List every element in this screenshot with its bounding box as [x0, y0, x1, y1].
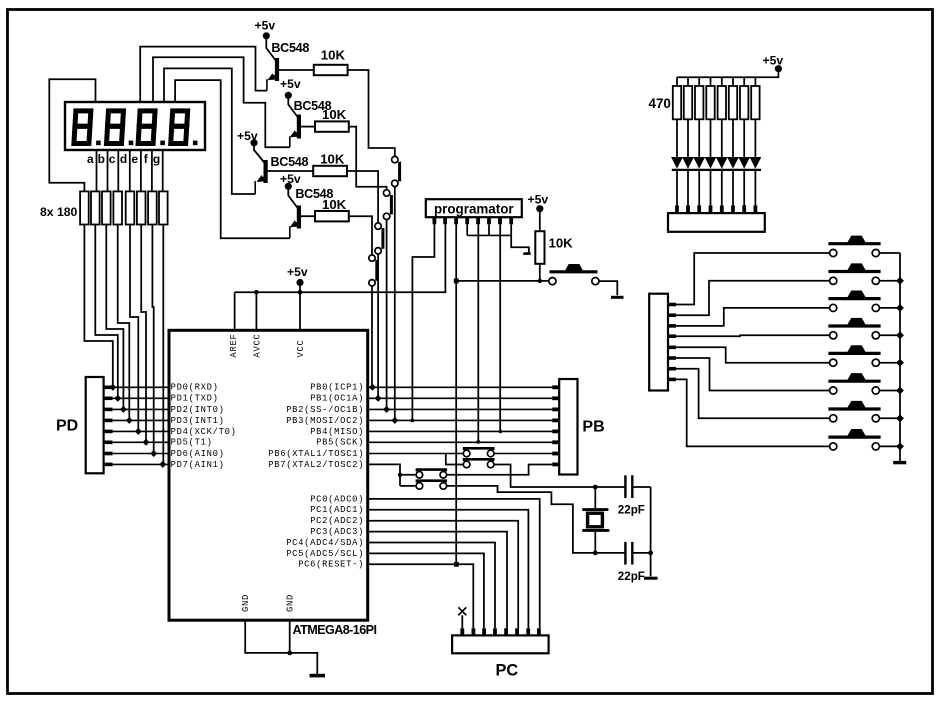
wire rail to resistor 470 #7 — [743, 77, 745, 86]
junction PD1 — [114, 395, 121, 402]
wire keys pin 8 to button 8 — [676, 379, 830, 446]
connector PD pin 6 stub — [104, 440, 113, 444]
connector PB pin 3 stub — [552, 407, 559, 411]
svg-text:PD: PD — [56, 418, 78, 435]
svg-text:d: d — [120, 152, 127, 166]
connector LED pin 4 stub — [709, 205, 713, 213]
wire S4 to PB0 — [371, 286, 373, 387]
svg-text:PB2(SS-/OC1B): PB2(SS-/OC1B) — [286, 405, 364, 415]
wire digit3 common to Q3 emitter — [164, 68, 255, 194]
svg-text:10K: 10K — [322, 107, 347, 122]
connector PC pin 7 stub — [526, 628, 530, 635]
connector LED pin 8 stub — [754, 205, 758, 213]
wire LED to connector #7 — [743, 170, 745, 206]
svg-text:8x 180: 8x 180 — [40, 205, 77, 219]
connector PB pin 1 stub — [552, 385, 559, 389]
wire X to PC pin1 — [461, 615, 463, 628]
junction PD6 — [150, 450, 157, 457]
wire cap C2 to bus — [632, 552, 650, 554]
junction bus button 8 — [896, 443, 904, 451]
wire AVCC pin — [255, 292, 257, 330]
transistor Q2 BC548 collector wire — [288, 95, 298, 118]
ground symbol programator — [523, 252, 530, 255]
resistor 470 ohm #1 — [673, 86, 681, 119]
resistor 180 ohm #3 — [102, 191, 111, 224]
wire PC2 line — [368, 521, 519, 629]
connector PC pin 1 stub — [460, 628, 464, 635]
button SW8 bar — [828, 436, 880, 439]
wire keys pin 1 to button 1 — [676, 253, 830, 305]
button SW3 bar — [828, 297, 880, 300]
wire PB6 to jumper JA — [368, 453, 464, 455]
+5v node Q1 — [263, 32, 270, 39]
wire programator pin5 (SCK) to PB5 — [477, 224, 479, 442]
+5v node VCC — [296, 279, 303, 286]
connector keys box — [649, 294, 668, 391]
wire button 1 to bus — [879, 252, 900, 254]
wire PC3 line — [368, 532, 507, 629]
transistor Q3 emitter wire — [258, 177, 265, 182]
wire segment f to resistor — [151, 150, 153, 191]
resistor 10K R2 body — [315, 121, 349, 131]
resistor 470 ohm #4 — [706, 86, 714, 119]
button SW4 right contact — [872, 332, 879, 339]
+5v node Q3 — [250, 139, 257, 146]
connector PC pin 6 stub — [515, 628, 519, 635]
connector keys pin 3 stub — [668, 324, 676, 328]
wire VCC pin — [299, 292, 301, 330]
wire rail to resistor 470 #2 — [687, 77, 689, 86]
button SW6 bar — [828, 380, 880, 383]
svg-text:PD2(INT0): PD2(INT0) — [171, 405, 225, 415]
jumper JB left contact — [463, 461, 470, 468]
wire programator pin1 (MOSI) to PB3 — [412, 224, 434, 420]
svg-text:+5v: +5v — [763, 54, 784, 68]
programator pin 5 stub — [476, 217, 480, 224]
button SW2 bar — [828, 270, 880, 273]
connector PC pin 2 stub — [471, 628, 475, 635]
svg-text:AREF: AREF — [229, 334, 239, 358]
wire R2 10K to switch S2 — [349, 127, 387, 190]
connector LED pin 7 stub — [742, 205, 746, 213]
wire digit4 common to Q4 emitter — [175, 80, 290, 238]
svg-text:PD0(RXD): PD0(RXD) — [171, 383, 219, 393]
wire button 2 to bus — [879, 280, 900, 282]
ground symbol caps — [644, 577, 658, 580]
wire LED to connector #2 — [687, 170, 689, 206]
LED D5 — [716, 157, 728, 169]
crystal X1 body — [588, 513, 603, 527]
svg-text:10K: 10K — [321, 48, 346, 63]
junction PD3 — [126, 417, 133, 424]
connector keys pin 4 stub — [668, 334, 676, 338]
switch S4 bottom contact — [369, 280, 375, 286]
svg-text:22pF: 22pF — [618, 504, 645, 517]
svg-text:PB: PB — [582, 419, 604, 436]
+5v node Q4 — [285, 183, 292, 190]
wire resistor to LED #3 — [698, 119, 700, 157]
wire rail to resistor 470 #3 — [698, 77, 700, 86]
connector LED pin 6 stub — [731, 205, 735, 213]
programator pin 4 stub — [465, 217, 469, 224]
programator pin 7 stub — [498, 217, 502, 224]
wire button 8 to bus — [879, 445, 900, 447]
connector PD pin 5 stub — [104, 430, 113, 434]
+5v node LEDs — [775, 65, 782, 72]
LED D8 — [750, 157, 762, 169]
wire PC5 line — [368, 553, 484, 628]
svg-text:10K: 10K — [549, 236, 574, 251]
wire segment c to resistor — [117, 150, 119, 191]
button SW2 right contact — [872, 277, 879, 284]
transistor Q4 emitter wire — [291, 222, 298, 227]
LED D7 — [738, 157, 750, 169]
button SW4 left contact — [830, 332, 837, 339]
connector PC box — [452, 635, 548, 653]
connector PB pin 8 stub — [552, 462, 559, 466]
connector keys pin 6 stub — [668, 356, 676, 360]
transistor Q1 BC548 collector wire — [266, 36, 276, 62]
wire PB1 line — [368, 397, 553, 399]
wire PB7 line — [368, 464, 400, 486]
wire R1 10K to switch S1 — [348, 70, 395, 156]
wire resistor to LED #7 — [743, 119, 745, 157]
transistor Q2 BC548 base bar — [297, 115, 301, 139]
caps ground bus — [650, 487, 652, 576]
button SW2 cap — [847, 263, 867, 271]
junction PB7 jumper C — [398, 473, 402, 477]
transistor Q3 BC548 collector wire — [254, 143, 265, 164]
display digit 2 (figure 8) — [107, 111, 124, 144]
connector keys pin 5 stub — [668, 345, 676, 349]
connector PB pin 6 stub — [552, 440, 559, 444]
svg-text:PC2(ADC2): PC2(ADC2) — [310, 516, 364, 526]
wire PD pin 6 to ATmega PD5 — [113, 441, 169, 443]
svg-text:PD1(TXD): PD1(TXD) — [171, 394, 219, 404]
capacitor C2 22pF right plate — [631, 542, 633, 565]
capacitor C1 22pF left plate — [624, 475, 626, 498]
svg-text:PC5(ADC5/SCL): PC5(ADC5/SCL) — [286, 549, 364, 559]
svg-text:10K: 10K — [320, 152, 345, 167]
junction PD7 — [159, 461, 166, 468]
junction PD2 — [120, 406, 127, 413]
wire LED to connector #8 — [754, 170, 756, 206]
resistor 470 ohm #8 — [751, 86, 759, 119]
wire segment b to resistor — [107, 150, 109, 191]
switch S3 lever — [381, 228, 384, 249]
connector PD pin 8 stub — [104, 463, 113, 467]
wire programator pin3 (reset) down — [455, 224, 457, 564]
button SW7 right contact — [872, 415, 879, 422]
resistor 180 ohm #1 — [80, 191, 89, 224]
connector PD box — [86, 377, 104, 473]
resistor 470 ohm #2 — [684, 86, 692, 119]
svg-text:PB7(XTAL2/TOSC2): PB7(XTAL2/TOSC2) — [268, 460, 364, 470]
LED D4 — [705, 157, 717, 169]
svg-text:PD3(INT1): PD3(INT1) — [171, 416, 225, 426]
button SW6 right contact — [872, 387, 879, 394]
LED D6 — [727, 157, 739, 169]
junction PD5 — [143, 439, 150, 446]
button SW3 right contact — [872, 304, 879, 311]
svg-text:+5v: +5v — [280, 77, 301, 91]
connector LED pin 1 stub — [675, 205, 679, 213]
wire jumper JB to crystal top — [494, 465, 625, 488]
jumper JB right contact — [487, 461, 494, 468]
wire LED to connector #1 — [676, 170, 678, 206]
svg-text:c: c — [109, 152, 116, 166]
wire keys pin 6 to button 6 — [676, 358, 830, 391]
capacitor C2 22pF left plate — [624, 542, 626, 565]
switch S1 bottom contact — [392, 180, 398, 186]
button SW1 left contact — [830, 249, 837, 256]
wire resistor #3 to PD2 — [106, 225, 123, 410]
junction R5 reset rail — [538, 279, 542, 283]
wire S3 to PB1 — [377, 254, 379, 398]
wire resistor #7 to PD6 — [152, 225, 153, 454]
svg-text:PB6(XTAL1/TOSC1): PB6(XTAL1/TOSC1) — [268, 449, 364, 459]
svg-text:PB4(MISO): PB4(MISO) — [310, 427, 364, 437]
svg-text:PC1(ADC1): PC1(ADC1) — [310, 505, 364, 515]
+5v node reset — [536, 205, 543, 212]
resistor 180 ohm #7 — [148, 191, 157, 224]
transistor Q2 emitter lead — [289, 136, 291, 147]
svg-text:GND: GND — [286, 594, 296, 612]
svg-text:VCC: VCC — [296, 340, 306, 358]
button SW3 cap — [847, 291, 867, 299]
wire resistor to LED #4 — [710, 119, 712, 157]
svg-text:+5v: +5v — [528, 193, 549, 207]
wire crystal top stem — [594, 487, 596, 508]
button SW1 right contact — [872, 249, 879, 256]
svg-text:BC548: BC548 — [271, 41, 309, 55]
button SW1 bar — [828, 242, 880, 245]
wire resistor #8 to PD7 — [162, 225, 164, 465]
transistor Q1 base wire — [279, 69, 314, 71]
programator pin 8 stub — [509, 217, 513, 224]
wire PB6 tap to jumper JB — [446, 454, 464, 465]
display digit 4 decimal point — [193, 141, 198, 146]
programator pin 2 stub — [443, 217, 447, 224]
wire GND pin left — [245, 620, 290, 653]
button SW1 cap — [847, 236, 867, 244]
programator pin 6 stub — [487, 217, 491, 224]
button SW2 left contact — [830, 277, 837, 284]
wire resistor to LED #1 — [676, 119, 678, 157]
connector PD pin 4 stub — [104, 419, 113, 423]
svg-text:e: e — [131, 152, 138, 166]
svg-text:PD7(AIN1): PD7(AIN1) — [171, 460, 225, 470]
connector LED pin 3 stub — [697, 205, 701, 213]
resistor 470 ohm #3 — [695, 86, 703, 119]
jumper JA left contact — [463, 450, 470, 457]
junction crystal bottom — [593, 551, 598, 556]
power rail to programator pin2 — [235, 224, 446, 292]
crystal X1 bottom plate — [582, 529, 609, 532]
connector PD pin 2 stub — [104, 396, 113, 400]
wire resistor to LED #2 — [687, 119, 689, 157]
resistor 10K R5 pull-up body — [535, 231, 544, 264]
connector PC pin 3 stub — [482, 628, 486, 635]
wire PD pin 4 to ATmega PD3 — [113, 419, 169, 421]
svg-text:b: b — [98, 152, 105, 166]
switch S2 lever — [390, 195, 393, 214]
wire LED to connector #3 — [698, 170, 700, 206]
wire button 3 to bus — [879, 307, 900, 309]
resistor 180 ohm #4 — [113, 191, 122, 224]
wire rail to resistor 470 #6 — [732, 77, 734, 86]
svg-text:a: a — [87, 152, 94, 166]
wire rail to resistor 470 #5 — [721, 77, 723, 86]
junction bus button 6 — [896, 387, 904, 395]
transistor Q3 base wire — [268, 170, 314, 172]
junction MISO-PB4 — [499, 430, 503, 434]
wire button 6 to bus — [879, 390, 900, 392]
connector PB pin 2 stub — [552, 396, 559, 400]
wire button 4 to bus — [879, 334, 900, 336]
svg-text:AVCC: AVCC — [252, 334, 262, 358]
wire PC4 line — [368, 543, 495, 629]
svg-text:ATMEGA8-16PI: ATMEGA8-16PI — [293, 623, 378, 637]
LED D3 — [693, 157, 705, 169]
reset button SW-R bar — [550, 270, 598, 273]
transistor Q4 base wire — [301, 215, 315, 217]
wire PD pin 5 to ATmega PD4 — [113, 430, 169, 432]
display digit 3 decimal point — [160, 141, 165, 146]
wire reset button to ground — [599, 281, 617, 295]
connector keys pin 7 stub — [668, 367, 676, 371]
wire PB4 line — [368, 430, 553, 432]
switch S3 top contact — [375, 223, 381, 229]
junction S3-PB1 — [375, 395, 382, 402]
switch S2 bottom contact — [383, 213, 389, 219]
resistor 470 ohm #5 — [718, 86, 726, 119]
resistor 180 ohm #8 — [159, 191, 168, 224]
svg-text:PB3(MOSI/OC2): PB3(MOSI/OC2) — [286, 416, 364, 426]
svg-text:g: g — [153, 152, 160, 166]
LED D1 — [671, 157, 683, 169]
wire resistor #1 to PD0 — [84, 225, 112, 388]
connector PC pin 4 stub — [493, 628, 497, 635]
wire resistor to LED #5 — [721, 119, 723, 157]
wire keys pin 3 to button 3 — [676, 308, 830, 326]
LED supply rail — [677, 69, 778, 78]
junction bus button 3 — [896, 304, 904, 312]
jumper JD right contact — [440, 483, 447, 490]
wire R5 to reset rail — [539, 264, 541, 281]
wire PB2 line — [368, 408, 553, 410]
connector keys pin 2 stub — [668, 313, 676, 317]
wire resistor #2 to PD1 — [95, 225, 118, 399]
svg-text:PC6(RESET-): PC6(RESET-) — [298, 560, 364, 570]
wire display dp pin around left to resistor R-dp — [49, 79, 95, 191]
resistor 10K R1 body — [314, 65, 348, 75]
display digit 3 (figure 8) — [138, 111, 155, 144]
transistor Q4 emitter arrow — [290, 220, 299, 227]
button SW4 cap — [847, 318, 867, 326]
junction AVCC rail — [254, 290, 259, 295]
svg-text:GND: GND — [241, 594, 251, 612]
connector PD pin 7 stub — [104, 452, 113, 456]
transistor Q3 BC548 base bar — [264, 160, 268, 183]
wire segment d to resistor — [129, 150, 131, 191]
junction bus button 7 — [896, 414, 904, 422]
button SW5 cap — [847, 345, 867, 353]
wire resistor to LED #6 — [732, 119, 734, 157]
wire crystal bottom stem — [594, 532, 596, 553]
wire to jumper JC — [400, 474, 416, 476]
connector LED box — [668, 213, 765, 232]
junction reset PC6 — [454, 562, 459, 567]
jumper JA right contact — [487, 450, 494, 457]
wire segment a to resistor — [96, 150, 98, 191]
svg-text:470: 470 — [649, 96, 671, 111]
wire PC0 line — [368, 499, 540, 628]
wire programator pin7 (MISO) to PB4 — [499, 224, 501, 431]
wire resistor #5 to PD4 — [130, 225, 138, 432]
IC U1 ATMEGA8-16PI body — [169, 330, 368, 620]
wire PC6 line — [368, 564, 474, 628]
wire PD pin 7 to ATmega PD6 — [113, 453, 169, 455]
transistor Q2 emitter wire — [291, 132, 298, 137]
transistor Q2 base wire — [301, 126, 315, 128]
connector LED pin 2 stub — [686, 205, 690, 213]
reset button SW-R left contact — [549, 278, 556, 285]
svg-text:PD4(XCK/T0): PD4(XCK/T0) — [171, 427, 237, 437]
wire LED to connector #4 — [710, 170, 712, 206]
display digit 4 (figure 8) — [171, 111, 188, 144]
wire digit2 common to Q2 emitter — [153, 57, 290, 147]
button SW5 right contact — [872, 359, 879, 366]
transistor Q4 emitter lead — [289, 226, 291, 238]
wire programator pin8 to ground — [511, 224, 529, 252]
button SW7 cap — [847, 401, 867, 409]
wire R3 10K to switch S3 — [347, 171, 378, 223]
button SW6 cap — [847, 373, 867, 381]
wire PD pin 2 to ATmega PD1 — [113, 397, 169, 399]
wire keys pin 4 to button 4 — [676, 334, 830, 337]
connector PB pin 7 stub — [552, 452, 559, 456]
wire jumper JD to crystal bottom — [447, 486, 596, 553]
connector PD pin 3 stub — [104, 408, 113, 412]
jumper JD bar — [417, 481, 446, 483]
wire keys pin 5 to button 5 — [676, 347, 830, 362]
junction PD4 — [135, 428, 142, 435]
junction bus button 2 — [896, 277, 904, 285]
wire PB3 line — [368, 419, 553, 421]
button SW7 bar — [828, 407, 880, 410]
connector PB pin 4 stub — [552, 418, 559, 422]
ground symbol reset — [611, 296, 624, 299]
button SW3 left contact — [830, 304, 837, 311]
buttons ground bus — [899, 253, 901, 461]
display digit 1 (figure 8) — [74, 111, 91, 144]
wire S2 to PB2 — [386, 220, 388, 410]
wire PB5 line — [368, 441, 553, 443]
svg-text:+5v: +5v — [255, 19, 276, 33]
wire resistor #6 to PD5 — [141, 225, 146, 443]
wire R4 10K to switch S4 — [349, 216, 372, 255]
wire PD pin 3 to ATmega PD2 — [113, 408, 169, 410]
wire button 5 to bus — [879, 362, 900, 364]
wire +5v to R5 — [539, 209, 541, 232]
transistor Q3 emitter lead — [254, 181, 256, 194]
switch S4 top contact — [369, 255, 375, 261]
junction S1-PB3 — [391, 417, 398, 424]
svg-text:10K: 10K — [322, 197, 347, 212]
programator ground bus — [467, 234, 511, 236]
junction S4-PB0 — [369, 384, 376, 391]
